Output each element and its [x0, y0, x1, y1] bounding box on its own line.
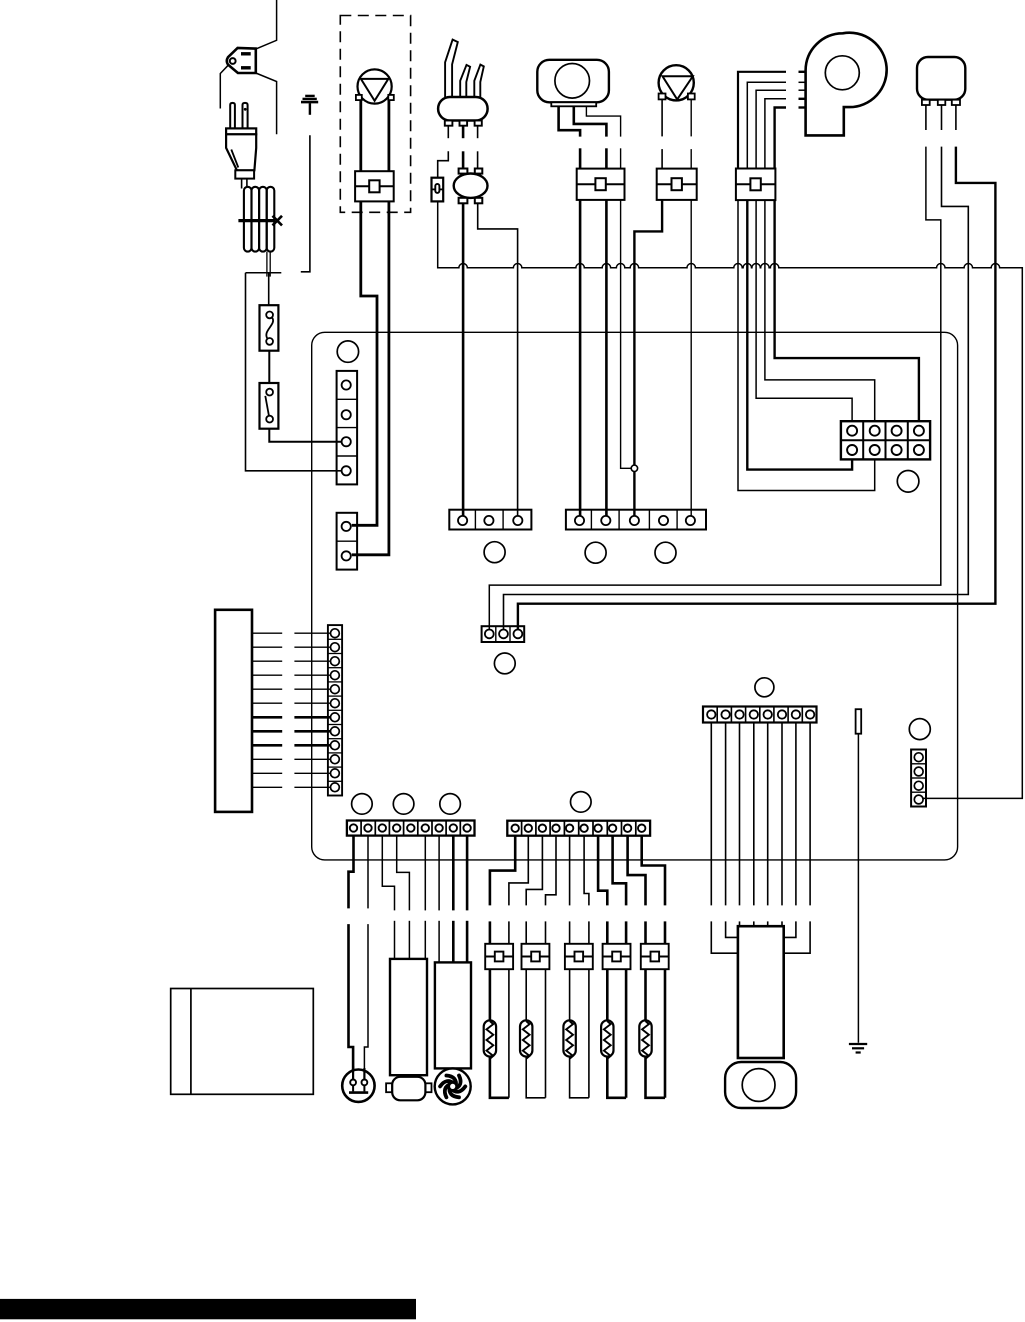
connector CN12 (12-pin vertical) — [328, 625, 342, 795]
mounting hole D — [655, 542, 676, 563]
wire: heater4 element to loop — [607, 1057, 626, 1098]
wire: valve lead2 upper — [690, 99, 692, 136]
wire: keypad line 12 seg A — [252, 786, 282, 788]
ground lead wire — [301, 135, 310, 272]
wire: blower lead1 to relay block row2 col2 (crosses bus) — [738, 200, 875, 490]
wire: valve lead1 upper — [661, 99, 663, 136]
wire: heater5 connector to element — [644, 969, 647, 1020]
wire from top edge to appliance inlet — [256, 0, 277, 49]
wire: blower lead3 to relay block row1 col1 (crosses bus) — [756, 200, 852, 426]
wire: keypad line 10 seg A — [252, 758, 282, 760]
power cord coil — [242, 179, 275, 252]
wire: pump connector to CN-B pin2 — [352, 201, 389, 554]
wire: pump connector to CN-B pin1 — [352, 201, 377, 525]
cord junction line — [246, 272, 282, 274]
wire: igniter pin1 upper — [447, 126, 449, 139]
wire: CN8 pin2 to motor (upper) — [725, 723, 727, 906]
wire: CN8 pin4 to motor (lower) — [753, 921, 755, 926]
wire: lamp lead1 upper — [559, 106, 581, 136]
wire: CN10 to heater1 right (upper) — [509, 836, 528, 906]
wire: igniter pin3 upper — [477, 126, 479, 139]
wire: door switch to CN-A pin3 — [269, 429, 341, 442]
wire: cord line to CN-A pin4 — [246, 273, 342, 471]
line bus (fuse F2 to CN4R pin4, with crossover hops) — [438, 201, 1023, 798]
wire: CN9 pin1 to round plug (upper) — [349, 836, 354, 909]
drum lamp L1 — [537, 60, 609, 107]
connector CN3 (3-pin) — [449, 510, 531, 530]
wire: CN10 to heater1 left (upper) — [490, 836, 515, 906]
wire: CN9 pin7 to fan motor (lower) — [438, 921, 440, 963]
wire: heater3 connector to element — [569, 969, 571, 1020]
connector: heater2 — [522, 944, 550, 969]
wire: lamp lead3 lower — [620, 148, 622, 168]
drive motor M1 — [725, 926, 796, 1108]
pump motor P1 — [356, 69, 394, 103]
connector CN-B (2-pin vertical) — [337, 513, 358, 570]
control board outline — [312, 332, 958, 860]
connector: heater4 — [603, 944, 631, 969]
wire: igniter pin2 to coil — [462, 151, 465, 168]
wire: cord line to thermal fuse — [268, 273, 270, 306]
mounting hole H — [352, 794, 373, 815]
heater element H3 — [563, 1020, 575, 1059]
wire: sensor lead2 upper — [941, 105, 943, 130]
heater element H2 — [520, 1020, 532, 1059]
wire: keypad line 4 seg A — [252, 674, 282, 676]
wire: CN8 pin8 to motor (upper) — [809, 723, 811, 906]
wire: blower lead2 to relay block row2 col1 (crosses bus) — [747, 200, 852, 470]
wire: heater1 right (lower) — [508, 921, 510, 1097]
wire: CN8 pin1 to motor (upper) — [710, 723, 712, 906]
wire: CN8 pin2 to motor (lower) — [726, 921, 738, 937]
wire: CN8 pin7 to motor (lower) — [784, 921, 796, 937]
wire: lamp lead3 to junction (crosses bus) — [621, 200, 631, 468]
wire: blower lead2 — [747, 82, 786, 168]
blower fan B1 — [806, 33, 887, 136]
wire: bar to chassis ground — [857, 734, 859, 1043]
wire: heater5 element to loop — [646, 1057, 666, 1098]
wire: valve lead2 lower — [690, 149, 692, 169]
mounting hole A — [337, 341, 358, 362]
wire: CN9 pin6 to transformer (upper) — [424, 836, 426, 911]
mounting hole C — [585, 542, 606, 563]
wire: keypad line 8 seg A — [252, 730, 282, 733]
appliance inlet plug (angled receptacle) — [227, 48, 256, 73]
wire: CN9 pin9 to fan motor (lower) — [466, 921, 469, 963]
wire: igniter pin2 upper — [462, 126, 465, 139]
wire: heater5 right (lower) — [664, 921, 667, 1097]
chassis ground (bottom) — [849, 1044, 867, 1053]
connector CN10 (10-pin) — [507, 821, 650, 836]
mounting hole E — [494, 653, 515, 674]
mounting hole B — [484, 542, 505, 563]
wire: blower lead3 — [756, 90, 786, 168]
wire: keypad line 10 seg B — [294, 758, 330, 760]
wire: heater2 right (lower) — [545, 921, 547, 1097]
junction node — [631, 465, 637, 471]
wire: CN9 pin8 to fan motor (lower) — [452, 921, 455, 963]
wire: CN8 pin5 to motor (lower) — [767, 921, 769, 926]
wire: CN10 to heater5 right (upper) — [642, 836, 665, 906]
wire: sensor lead3 to CN3L pin3 (crosses bus) — [518, 147, 996, 630]
wire from inlet lower-right — [256, 73, 277, 134]
wire: keypad line 7 seg B — [294, 716, 330, 719]
cord tails below coil — [266, 252, 268, 277]
heater element H4 — [601, 1020, 613, 1059]
wire: fuse to door switch — [268, 351, 270, 383]
wire: heater3 right (lower) — [588, 921, 590, 1097]
connector CN4R (4-pin vertical right) — [911, 750, 926, 807]
wire: CN9 pin2 to round plug (upper) — [367, 836, 369, 909]
heater element H5 — [639, 1020, 651, 1059]
wire: keypad line 2 seg A — [252, 646, 282, 648]
wire: blower lead5 to relay block row1 col4 (crosses bus) — [775, 200, 919, 426]
connector: lamp — [577, 169, 625, 200]
door switch S1 — [260, 383, 279, 429]
connector: heater5 — [641, 944, 669, 969]
wire: sensor lead3 upper — [955, 105, 957, 130]
wire: keypad line 4 seg B — [294, 674, 330, 676]
wire: keypad line 9 seg B — [294, 744, 330, 747]
wire: lamp lead1 lower — [579, 148, 582, 168]
wire: heater3 element to loop — [570, 1057, 589, 1098]
wire: keypad line 6 seg B — [294, 702, 330, 704]
mounting hole I — [393, 794, 414, 815]
heater element H1 — [484, 1020, 496, 1059]
wire: blower lead4 to relay block row1 col2 (crosses bus) — [765, 200, 875, 426]
wire: lamp lead1 to CN5 pin1 (crosses bus) — [579, 200, 582, 516]
wire: CN10 to heater2 right (upper) — [546, 836, 557, 906]
igniter IG1 — [438, 40, 488, 126]
wire: heater4 left (lower) — [606, 921, 609, 943]
wire: valve lead1 lower — [661, 149, 663, 169]
wire: CN10 to heater3 left (upper) — [569, 836, 571, 906]
wire: CN10 to heater5 left (upper) — [628, 836, 646, 906]
connector CN3L (3-pin low) — [482, 626, 525, 642]
spark gap / fuse bar — [856, 709, 862, 734]
wire: CN8 pin8 to motor (lower) — [784, 921, 810, 953]
wire: valve lead1 to CN5 pin3 (crosses bus, via junction) — [634, 200, 662, 516]
wire: coil to 3-pin CN pin3 (crosses bus) — [478, 203, 518, 516]
connector: pump — [355, 171, 394, 201]
wire: lamp lead2 to CN5 pin2 (crosses bus) — [605, 200, 608, 516]
wire: CN8 pin7 to motor (upper) — [795, 723, 797, 906]
connector CN5 (5-pin) — [566, 510, 706, 530]
wire: heater4 connector to element — [606, 969, 609, 1020]
wire: keypad line 12 seg B — [294, 786, 330, 788]
wire from inlet lower-left — [220, 64, 229, 108]
wire: heater5 left (lower) — [644, 921, 647, 943]
wire: keypad line 3 seg B — [294, 660, 330, 662]
round plug (2-pin) — [342, 1066, 374, 1102]
wire: heater1 element to loop — [490, 1057, 509, 1098]
wire: keypad line 11 seg A — [252, 772, 282, 774]
wire: CN10 to heater4 right (upper) — [613, 836, 627, 906]
wire: CN9 pin1 to round plug (lower) — [349, 924, 354, 1080]
wire: igniter pin3 to coil — [477, 151, 479, 168]
wire: keypad line 3 seg A — [252, 660, 282, 662]
wire: keypad line 7 seg A — [252, 716, 282, 719]
wire: heater4 right (lower) — [625, 921, 628, 1097]
wire: keypad line 6 seg A — [252, 702, 282, 704]
wire: lamp lead3 upper — [586, 106, 620, 136]
gas valve V1 — [659, 65, 695, 100]
wire: heater2 element to loop — [526, 1057, 545, 1098]
wire: sensor lead1 to CN3L pin1 (crosses bus) — [489, 147, 941, 630]
wire: CN8 pin3 to motor (upper) — [739, 723, 741, 906]
wire: CN8 pin6 to motor (upper) — [781, 723, 783, 906]
wire: CN9 pin2 to round plug (lower) — [364, 924, 368, 1080]
wire: keypad line 5 seg A — [252, 688, 282, 690]
wire: sensor lead1 upper — [925, 105, 927, 130]
wire: CN10 to heater4 left (upper) — [598, 836, 607, 906]
wire: pump left lead — [359, 100, 362, 171]
wire: CN8 pin3 to motor (lower) — [739, 921, 741, 926]
wire: heater1 left (lower) — [489, 921, 492, 943]
wire: CN9 pin9 to fan motor (upper) — [466, 836, 469, 911]
flame sensor fuse F2 — [432, 178, 444, 202]
relay terminal block (4x2) — [841, 421, 930, 459]
wire: keypad line 1 seg A — [252, 632, 282, 634]
wire: CN9 pin4 to transformer (lower) — [408, 921, 410, 959]
wire: CN8 pin5 to motor (upper) — [767, 723, 769, 906]
wire: CN9 pin3 to transformer (lower) — [394, 921, 396, 959]
connector: blower — [736, 169, 776, 201]
fan impeller — [435, 1068, 471, 1104]
chassis ground (top) — [301, 96, 318, 115]
wire: igniter pin1 to sensor fuse — [438, 151, 449, 177]
wire: keypad line 9 seg A — [252, 744, 282, 747]
mounting hole K — [909, 719, 930, 740]
wire: CN8 pin4 to motor (upper) — [753, 723, 755, 906]
transformer T1 — [386, 959, 431, 1100]
wire: CN10 to heater3 right (upper) — [584, 836, 589, 906]
mounting hole L — [897, 471, 919, 493]
wire: blower lead4 — [765, 99, 786, 169]
fan motor body — [435, 962, 471, 1068]
wire: CN9 pin4 to transformer (upper) — [397, 836, 410, 911]
wire: blower lead5 — [775, 108, 786, 169]
wire: heater1 connector to element — [489, 969, 492, 1020]
mounting hole F — [755, 678, 774, 697]
connector: heater3 — [565, 944, 593, 969]
wire: CN9 pin6 to transformer (lower) — [424, 921, 426, 959]
thermal fuse F1 — [260, 305, 279, 351]
connector: valve — [657, 169, 697, 200]
wire: CN9 pin8 to fan motor (upper) — [452, 836, 455, 911]
wire: keypad line 8 seg B — [294, 730, 330, 733]
wire: sensor lead2 to CN3L pin2 (crosses bus) — [504, 147, 969, 630]
wire: valve lead2 to CN5 pin5 (crosses bus) — [690, 200, 692, 516]
connector CN8 (8-pin) — [703, 707, 817, 723]
wire: keypad line 11 seg B — [294, 772, 330, 774]
footer bar — [0, 1299, 416, 1319]
wire: lamp lead2 upper — [574, 106, 607, 136]
cord tie wrap — [238, 216, 282, 226]
connector CN9 (9-pin) — [347, 821, 475, 836]
blower lead stubs — [799, 71, 806, 73]
wire: coil to 3-pin CN pin1 (crosses bus) — [462, 203, 465, 516]
wire: CN9 pin7 to fan motor (upper) — [438, 836, 440, 911]
mounting hole J — [440, 794, 461, 815]
connector: heater1 — [485, 944, 513, 969]
connector CN-A (4-pin vertical) — [337, 371, 358, 485]
wire: heater2 left (lower) — [525, 921, 527, 943]
wire: pump right lead — [387, 100, 390, 171]
moisture sensor S2 — [917, 57, 965, 105]
wire: keypad line 1 seg B — [294, 632, 330, 634]
wire: CN8 pin6 to motor (lower) — [781, 921, 783, 926]
dashed enclosure (pump assembly) — [340, 16, 410, 213]
mounting hole G — [571, 792, 592, 813]
wire: heater2 connector to element — [525, 969, 527, 1020]
wire: keypad line 5 seg B — [294, 688, 330, 690]
wire: CN10 to heater2 left (upper) — [526, 836, 542, 906]
wire: keypad line 2 seg B — [294, 646, 330, 648]
wire: blower lead1 — [738, 72, 786, 169]
spark coil T2 — [454, 169, 488, 204]
wire: CN8 pin1 to motor (lower) — [711, 921, 738, 953]
wire: heater3 left (lower) — [569, 921, 571, 943]
wire: CN9 pin3 to transformer (upper) — [382, 836, 394, 911]
legend box — [171, 989, 314, 1095]
power plug (2-prong) — [226, 103, 256, 179]
display/keypad panel — [215, 610, 252, 812]
wire: lamp lead2 lower — [605, 148, 608, 168]
